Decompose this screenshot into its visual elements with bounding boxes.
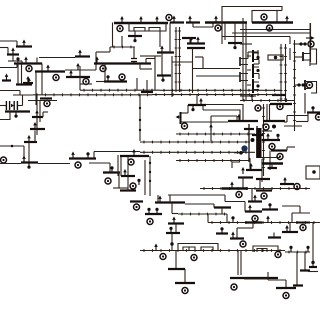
transistor M4 arrow (46, 65, 50, 72)
junction (139, 119, 141, 121)
wire (16, 41, 18, 47)
wire (36, 94, 38, 135)
transistor M49 arrow (249, 163, 253, 170)
transistor M25 bar (128, 35, 142, 37)
pin arrow (285, 16, 289, 23)
wire (286, 116, 288, 123)
wire (155, 55, 161, 57)
crossbar right (270, 103, 292, 105)
wire (169, 23, 171, 53)
transistor bar (75, 55, 90, 57)
transistor M26 bar (187, 42, 205, 44)
transistor M30 bar (228, 42, 242, 44)
wire vertical right (309, 23, 311, 62)
dot pin (137, 179, 140, 185)
transistor M31 bar (182, 37, 196, 39)
transistor M56 bar (175, 282, 195, 284)
wire (207, 214, 209, 223)
wire (175, 224, 177, 234)
transistor M46 bar (121, 175, 135, 177)
wire (96, 51, 110, 53)
arrow right pin (11, 104, 14, 108)
transistor M40 arrow (237, 114, 241, 121)
pin arrow (76, 63, 80, 70)
wire netA (168, 194, 225, 196)
wire (113, 187, 128, 189)
wire net1 top-left (0, 40, 17, 42)
pin arrow (160, 46, 164, 53)
wire (254, 63, 260, 65)
wire box (178, 244, 218, 251)
junction (139, 107, 141, 109)
wire (259, 179, 261, 188)
pin arrow (139, 16, 143, 23)
wire (171, 246, 173, 251)
transistor M50 bar (238, 176, 253, 178)
wire (139, 95, 141, 141)
transistor M28b bar (170, 21, 184, 23)
pin P33 (160, 254, 166, 260)
transistor M24b bar (157, 74, 171, 76)
transistor M2 bar (7, 53, 19, 55)
wire (109, 47, 111, 52)
wire (36, 117, 38, 129)
bus net23 (176, 159, 250, 162)
bus vertical net10 (175, 27, 178, 92)
wire (212, 23, 214, 28)
dot pin (86, 152, 89, 158)
crossbar (262, 208, 278, 210)
transistor M43 arrow (266, 133, 270, 140)
wire notch (201, 247, 213, 251)
wire (93, 152, 95, 159)
pin P42 (300, 225, 306, 231)
wire (282, 205, 300, 207)
wire (244, 278, 268, 280)
transistor M37 gate bar (180, 112, 182, 124)
bus vertical net19 (262, 104, 265, 176)
wire (146, 80, 148, 92)
wire (258, 74, 260, 80)
pin arrow (196, 37, 200, 44)
pin arrow (253, 195, 257, 202)
pin dot (170, 242, 173, 245)
bus net21 (140, 141, 250, 144)
wire long vertical (242, 18, 244, 100)
bus (285, 251, 310, 254)
wire (240, 95, 256, 97)
dot pin (14, 112, 17, 118)
pin arrow (154, 244, 158, 251)
pin arrow (214, 16, 218, 23)
pin dot (256, 84, 259, 87)
transistor M58 bar (230, 237, 244, 239)
junction (149, 162, 151, 164)
wire (21, 61, 23, 64)
transistor M15 arrow (27, 135, 31, 142)
wire (295, 43, 307, 45)
transistor Q3 (239, 57, 241, 66)
rail bar (155, 201, 185, 203)
wire (269, 104, 271, 121)
transistor M51 bar (280, 183, 294, 185)
wire (308, 271, 318, 273)
wire (210, 116, 212, 141)
transistor M42 bar (307, 111, 320, 113)
wire (261, 249, 263, 253)
dot pin (191, 105, 194, 111)
transistor M17 arrow (71, 152, 75, 159)
bus net22 (140, 151, 255, 154)
wire (159, 31, 161, 47)
wire (36, 58, 38, 64)
transistor M21 bar (94, 62, 151, 64)
dot pin (110, 166, 113, 172)
wire (287, 115, 308, 117)
bus vertical right (293, 40, 296, 131)
dot pin (189, 37, 192, 43)
wire (18, 105, 23, 107)
wire notch (183, 247, 195, 251)
pin P31 (294, 184, 300, 190)
dot pin (106, 75, 109, 81)
wire (258, 60, 260, 65)
transistor M48b bar (166, 232, 180, 234)
wire (172, 213, 178, 215)
wire net12 (240, 29, 310, 31)
wire (222, 36, 290, 38)
pin dot (256, 56, 259, 59)
wire (211, 115, 237, 117)
rail bar (120, 155, 149, 157)
wire net2b (65, 69, 96, 71)
transistor M41 bar (263, 120, 285, 122)
wire (192, 48, 194, 93)
wire (296, 252, 298, 285)
pin arrow (78, 50, 82, 57)
dot pin (289, 246, 292, 252)
crossbar (244, 128, 254, 130)
wire (284, 125, 302, 127)
pin arrow (250, 94, 254, 101)
wire net3 (0, 90, 20, 92)
capacitor C1 (6, 101, 9, 110)
wire (206, 105, 243, 122)
pin P8 (100, 66, 106, 72)
feedback loop wire (310, 49, 317, 64)
wire vertical (256, 126, 258, 158)
pin P32 (252, 216, 258, 222)
transistor Q2 chain (252, 64, 254, 78)
wire (23, 146, 25, 163)
transistor M40 bar (228, 120, 258, 122)
transistor M60 bar (300, 269, 310, 271)
wire (134, 31, 136, 36)
pin dot (297, 83, 300, 86)
wire net4 (0, 145, 24, 147)
junction (149, 180, 151, 182)
pin P28b (134, 204, 140, 210)
wire (226, 214, 228, 223)
pin dot (311, 261, 314, 264)
wire (261, 159, 263, 182)
wire (117, 155, 119, 176)
wire (312, 223, 314, 262)
wire (237, 251, 239, 276)
transistor M16 arrow (22, 156, 26, 163)
pin P40 (231, 284, 237, 290)
wire (133, 62, 135, 64)
transistor M36 bar (272, 94, 286, 96)
wire (248, 51, 258, 53)
wire (34, 131, 36, 140)
transistor M22 bar (104, 80, 127, 82)
transistor M13 bar (2, 79, 11, 81)
dot pin (16, 57, 19, 63)
bus net6 (110, 46, 135, 49)
crossbar (248, 200, 262, 202)
wire (213, 204, 215, 208)
transistor M61 bar (230, 277, 278, 279)
wire (127, 155, 129, 188)
wire (266, 104, 268, 121)
transistor M1 gate arrow (22, 40, 26, 47)
arrow right pin (306, 37, 311, 39)
pin dot (299, 42, 302, 45)
junction (149, 171, 151, 173)
wire (295, 56, 303, 58)
wire (296, 121, 308, 123)
module box U1 (252, 11, 277, 23)
wire (133, 47, 135, 58)
junction large navy (241, 145, 247, 151)
pin P25 (277, 154, 283, 160)
wire (12, 55, 14, 62)
crossbar small (216, 232, 228, 234)
rail bar (222, 187, 248, 189)
transistor M15 bar (24, 141, 37, 143)
transistor M8 arrow (27, 78, 31, 85)
bus net8 (33, 93, 152, 96)
pin dot (301, 83, 304, 86)
wire net16 (196, 75, 240, 77)
bus vertical (178, 27, 181, 92)
wire (127, 188, 129, 191)
wire (145, 59, 147, 64)
wire (0, 105, 6, 107)
dot pin (276, 134, 279, 140)
pin dot (274, 56, 277, 59)
wire (16, 64, 18, 68)
pin P11 (117, 26, 123, 32)
transistor M23 bar (141, 91, 153, 93)
pin dot (272, 125, 276, 129)
wire (221, 208, 223, 215)
dot pin inverted (233, 43, 236, 49)
pin P2 (53, 75, 59, 81)
wire (285, 280, 287, 288)
wire (7, 48, 9, 55)
wire (202, 106, 204, 111)
wire (95, 52, 97, 64)
crossbar low (268, 236, 281, 238)
wire (8, 60, 22, 62)
transistor M50 arrow (241, 167, 245, 174)
wire notch (257, 249, 267, 253)
pin P13 (215, 25, 221, 31)
pin arrow (199, 98, 203, 105)
pin arrow (266, 216, 270, 223)
wire box (253, 246, 278, 252)
wire (35, 72, 37, 106)
dot pin (306, 246, 309, 252)
wire (221, 23, 223, 45)
rail bar (296, 222, 310, 224)
transistor Q1 chain (252, 50, 254, 62)
dot pin (155, 208, 158, 214)
wire vertical (248, 124, 250, 162)
wire (304, 252, 306, 271)
wire (118, 173, 120, 189)
wire (195, 56, 203, 58)
transistor M57 bar (245, 221, 262, 223)
wire (154, 56, 156, 90)
transistor M46 arrow (123, 169, 127, 176)
pin arrow (230, 182, 234, 189)
transistor M48 bar (168, 222, 184, 224)
transistor M4 bar (35, 70, 65, 72)
wire (104, 64, 106, 82)
wire net2 (39, 57, 75, 59)
pin arrow (209, 124, 213, 131)
wire (140, 55, 155, 57)
pin P30 (261, 193, 267, 199)
junction (251, 138, 255, 142)
pin P18 (308, 41, 314, 47)
transistor M17 bar (69, 157, 96, 159)
wire (79, 66, 81, 90)
rail bar VDD (114, 22, 168, 24)
wire (96, 81, 104, 83)
transistor M62 bar (276, 287, 296, 289)
wire recessed box (129, 23, 166, 32)
crossbar small (309, 266, 317, 268)
pin P35 (182, 288, 188, 294)
wire (188, 247, 190, 251)
wire (232, 162, 240, 168)
wire (17, 61, 19, 85)
wire (202, 57, 204, 68)
bus net28 bottom rail (140, 249, 285, 252)
pin arrow (155, 16, 159, 23)
wire (175, 251, 177, 270)
pin P34 (191, 255, 197, 261)
arrow left pin (179, 116, 182, 118)
bus net29 (208, 221, 320, 224)
transistor M1 bar (16, 45, 32, 47)
transistor M2 gate arrow (11, 48, 15, 55)
transistor M5 bar (23, 82, 33, 84)
crossbar (214, 206, 231, 208)
wire (262, 130, 272, 132)
wire (187, 105, 189, 113)
wire (192, 23, 194, 28)
wire (242, 178, 244, 189)
dot pin (147, 208, 150, 214)
dot pin inverted (133, 36, 136, 42)
pin P26 (128, 159, 134, 165)
transistor M47 bar (145, 213, 162, 215)
wire (169, 195, 171, 203)
pin dot (256, 69, 259, 72)
pin P14 (261, 14, 267, 20)
pin dot (312, 170, 316, 174)
transistor M19 bar (120, 189, 136, 191)
wire (144, 160, 146, 195)
pin P19 (307, 82, 313, 88)
pin P24 (269, 144, 275, 150)
bus net20 (176, 133, 255, 136)
wire long vertical (149, 156, 151, 196)
wire (249, 158, 251, 170)
wire (41, 64, 43, 96)
transistor M14 bar (32, 116, 43, 118)
wire (307, 113, 309, 122)
transistor M50b bar (256, 178, 270, 180)
transistor M38 bar (188, 104, 206, 106)
wire (277, 10, 282, 12)
wire (28, 142, 30, 163)
pin P7 (105, 178, 111, 184)
bus net18 (152, 93, 281, 96)
pin P15 (267, 25, 273, 31)
transistor M6 arrow (69, 70, 73, 77)
transistor Q6 (302, 52, 304, 61)
pin arrow (172, 217, 176, 224)
wire (242, 150, 244, 153)
crossbar (252, 134, 263, 136)
wire (120, 155, 122, 176)
wire (261, 157, 280, 159)
transistor M8 bar (16, 83, 32, 85)
wire loop net11 (222, 7, 282, 23)
wire (171, 233, 173, 243)
wire (172, 61, 192, 63)
wire (236, 228, 238, 238)
transistor Q7 (304, 80, 306, 90)
wire (157, 195, 159, 203)
wire (252, 223, 254, 229)
wire (171, 203, 173, 214)
bus net7 (80, 89, 160, 92)
wire (112, 23, 114, 48)
wire stub (121, 36, 123, 47)
bus vertical net13 (280, 44, 283, 102)
wire (292, 212, 310, 214)
transistor M55 bar (168, 268, 185, 270)
wire (0, 67, 17, 69)
wire (273, 233, 275, 238)
transistor M28b arrow (172, 16, 176, 23)
bus vertical (284, 44, 287, 102)
wire net5 (38, 163, 70, 165)
rail bar top-right (252, 21, 293, 23)
wire (251, 189, 253, 202)
feedback loop wire (311, 82, 317, 94)
wire (21, 64, 23, 85)
transistor M10 bar (5, 110, 30, 112)
transistor Q3 chain (252, 79, 254, 93)
